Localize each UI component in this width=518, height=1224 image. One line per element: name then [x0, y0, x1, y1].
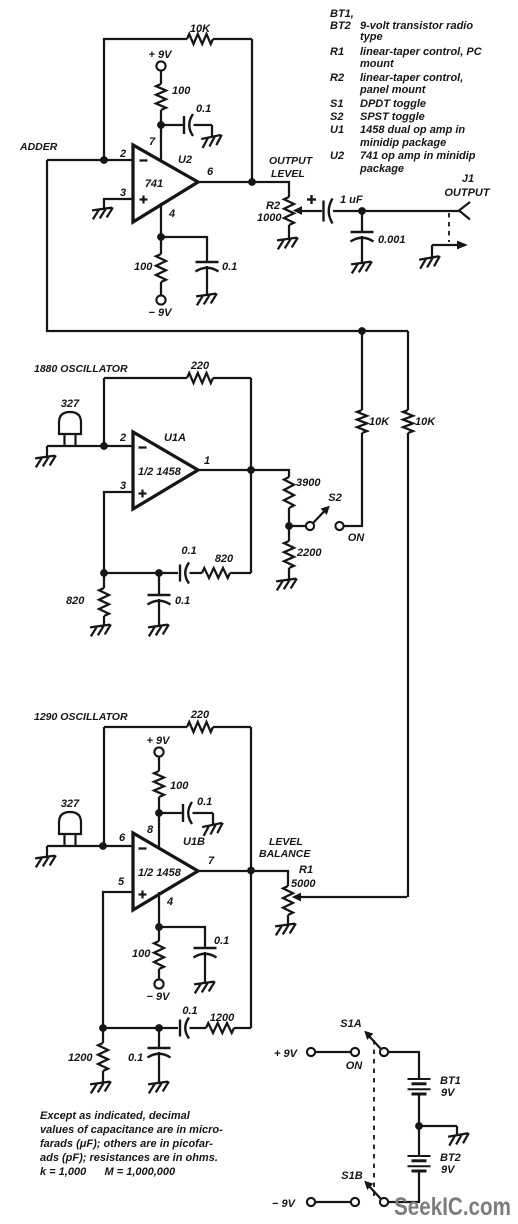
svg-text:R1: R1 — [330, 46, 344, 58]
minus sign (U1B) — [139, 847, 147, 849]
ground (pin8 bypass) — [202, 823, 225, 836]
wire mid to BT2 — [418, 1126, 420, 1156]
svg-text:0.1: 0.1 — [128, 1052, 143, 1064]
wire 1290 top right leg — [250, 727, 252, 870]
node S2 — [286, 523, 293, 530]
terminal +9V b — [351, 1048, 359, 1056]
svg-text:LEVEL: LEVEL — [271, 168, 305, 180]
switch S1A pole — [380, 1048, 388, 1056]
svg-text:J1: J1 — [462, 173, 474, 185]
svg-text:100: 100 — [172, 85, 191, 97]
wire feedback top of U2 — [104, 39, 187, 160]
capacitor 0.001 — [351, 231, 374, 233]
svg-text:BALANCE: BALANCE — [259, 848, 311, 860]
battery BT2 — [408, 1155, 431, 1157]
ground (C 0.001) — [351, 261, 374, 273]
terminal +9V (U2 pin7) — [156, 61, 165, 70]
svg-text:ON: ON — [346, 1060, 364, 1072]
svg-text:5: 5 — [118, 876, 125, 888]
svg-text:1290 OSCILLATOR: 1290 OSCILLATOR — [34, 711, 128, 723]
wire U1A output — [198, 469, 251, 471]
wire 1880 bottom row — [104, 572, 178, 574]
battery BT1 — [408, 1078, 431, 1080]
capacitor 0.1 (1880 shunt) — [148, 594, 171, 596]
plus sign (U2 pin3) — [140, 198, 148, 200]
node fb left — [101, 570, 108, 577]
wire U2 output — [198, 181, 252, 183]
wire U2 pin3 — [104, 199, 133, 208]
svg-text:1/2 1458: 1/2 1458 — [138, 466, 182, 478]
ground (lamp 1290) — [35, 855, 58, 867]
svg-text:SeekIC.com: SeekIC.com — [394, 1193, 511, 1221]
wire 1200 gnd — [102, 1071, 104, 1082]
wire 2200 gnd — [288, 568, 290, 579]
switch S1A lever — [369, 1036, 381, 1049]
svg-text:ads (pF); resistances are in o: ads (pF); resistances are in ohms. — [40, 1152, 218, 1164]
wire output to R2 — [252, 182, 289, 197]
svg-text:0.001: 0.001 — [378, 234, 406, 246]
wire R to node — [158, 797, 160, 813]
potentiometer R1 5000 — [283, 886, 293, 915]
wire pin4 to R — [158, 927, 160, 941]
wire R to -9V — [160, 282, 162, 296]
wire node to cap — [159, 812, 183, 814]
ground (820) — [90, 624, 113, 636]
resistor 1200 (1290 shunt) — [98, 1043, 108, 1071]
svg-text:values of capacitance are in m: values of capacitance are in micro- — [40, 1124, 223, 1136]
svg-text:10K: 10K — [369, 416, 390, 428]
wire balance rail down — [407, 433, 409, 897]
wire 1880 top right leg — [250, 378, 252, 470]
terminal -9V (U2) — [156, 295, 165, 304]
wire cap to gnd — [361, 236, 363, 262]
capacitor 0.1 (U2 pin7 bypass) — [183, 116, 185, 134]
node fb mid 1290 — [156, 1025, 163, 1032]
svg-text:BT1: BT1 — [440, 1075, 461, 1087]
resistor 100 (U1B pin4) — [154, 941, 164, 969]
svg-text:1000: 1000 — [257, 212, 282, 224]
svg-text:6: 6 — [119, 832, 126, 844]
wire mid to gnd — [419, 1125, 457, 1127]
wire cap to J1 — [333, 210, 460, 212]
wire R to right leg — [234, 1027, 251, 1029]
wire out to R1 — [251, 871, 288, 886]
svg-text:100: 100 — [170, 780, 189, 792]
wiper arrow R1 — [298, 896, 407, 898]
op-amp U2 — [133, 145, 198, 222]
ground (0.1 1290) — [148, 1081, 171, 1093]
svg-text:0.1: 0.1 — [182, 1005, 197, 1017]
svg-text:R2: R2 — [330, 72, 344, 84]
svg-text:S2: S2 — [330, 111, 343, 123]
wire to 0.1 shunt 1290 — [158, 1028, 160, 1048]
ground (1200) — [90, 1081, 113, 1093]
minus sign (U1A) — [139, 446, 147, 448]
svg-text:741 op amp in minidip: 741 op amp in minidip — [360, 150, 476, 162]
svg-text:+ 9V: + 9V — [147, 735, 172, 747]
wire pin7 node to cap — [161, 124, 184, 126]
svg-text:U1A: U1A — [164, 432, 186, 444]
svg-text:3: 3 — [120, 480, 126, 492]
resistor 100 (U2 pin7 supply) — [156, 84, 166, 110]
svg-text:820: 820 — [215, 553, 234, 565]
svg-text:0.1: 0.1 — [214, 935, 229, 947]
terminal -9V b — [351, 1198, 359, 1206]
ground (battery mid) — [448, 1133, 471, 1146]
wire cap to R — [190, 1027, 207, 1029]
wire out to 3900 — [251, 470, 289, 477]
wire S2 to 10K — [344, 433, 362, 526]
svg-text:220: 220 — [190, 360, 210, 372]
svg-text:BT2: BT2 — [440, 1152, 461, 1164]
node 0.001 tap — [359, 208, 366, 215]
svg-text:220: 220 — [190, 709, 210, 721]
svg-text:R1: R1 — [299, 864, 313, 876]
wire 1290 top left leg — [103, 727, 105, 846]
lamp 327 (1290) — [59, 812, 81, 834]
svg-text:1458 dual op amp in: 1458 dual op amp in — [360, 124, 465, 136]
svg-text:9V: 9V — [441, 1087, 456, 1099]
svg-text:− 9V: − 9V — [147, 991, 172, 1003]
svg-text:DPDT toggle: DPDT toggle — [360, 98, 426, 110]
ground (2200) — [276, 578, 299, 590]
svg-text:BT1,: BT1, — [330, 8, 354, 20]
node fb mid — [156, 570, 163, 577]
svg-text:minidip package: minidip package — [360, 137, 446, 149]
wiper arrow R2 — [299, 210, 322, 212]
node pin2/feedback — [101, 157, 108, 164]
svg-text:9V: 9V — [441, 1164, 456, 1176]
lamp 327 (1880) — [59, 412, 81, 434]
wire 1880 feedback top — [104, 377, 187, 379]
op-amp U1A — [133, 432, 198, 509]
wire 1880 top left leg — [103, 378, 105, 446]
capacitor 0.1 (U1B pin4 bypass) — [194, 947, 217, 949]
switch S2 contact a — [306, 522, 314, 530]
wire pin4 to cap 0.1 — [161, 237, 207, 262]
terminal -9V (U1B) — [154, 979, 163, 988]
wire U1B output — [198, 870, 251, 872]
svg-text:1200: 1200 — [68, 1052, 93, 1064]
wire R1 to gnd — [287, 915, 289, 924]
svg-text:U1: U1 — [330, 124, 344, 136]
wire cap to R — [190, 572, 203, 574]
svg-text:327: 327 — [61, 798, 80, 810]
wire 0.1 gnd — [158, 599, 160, 625]
svg-text:Except as indicated, decimal: Except as indicated, decimal — [40, 1110, 191, 1122]
svg-text:0.1: 0.1 — [181, 545, 196, 557]
wire +9V to R — [160, 71, 162, 84]
node 10K/rail — [359, 328, 366, 335]
wire lamp gnd stub — [46, 846, 48, 856]
wire cap to gnd — [193, 812, 214, 814]
svg-text:2200: 2200 — [296, 547, 322, 559]
dashed link J1 — [448, 213, 450, 242]
svg-text:OUTPUT: OUTPUT — [444, 187, 491, 199]
wire 1290 feedback top — [104, 726, 187, 728]
wire U1B pin5 — [103, 892, 133, 1028]
wire tap to cap — [361, 211, 363, 232]
ground (R1) — [275, 923, 298, 935]
wire 1880 bottom right leg — [250, 470, 252, 573]
svg-text:OUTPUT: OUTPUT — [269, 155, 314, 167]
plug arrow (J1 mate) — [432, 244, 459, 246]
svg-text:10K: 10K — [415, 416, 436, 428]
wire pin4 to R — [160, 237, 162, 254]
svg-text:+ 9V: + 9V — [149, 49, 174, 61]
wire to 0.1 shunt — [158, 573, 160, 595]
op-amp U1B — [133, 833, 198, 910]
wire R2 to gnd — [288, 225, 290, 238]
svg-text:1 uF: 1 uF — [340, 194, 363, 206]
wire node to S2 — [289, 525, 306, 527]
svg-text:U2: U2 — [178, 154, 192, 166]
wire pin7 stub — [160, 125, 162, 162]
wire BT1 to mid — [418, 1094, 420, 1126]
svg-text:2: 2 — [119, 148, 126, 160]
svg-text:SPST toggle: SPST toggle — [360, 111, 425, 123]
svg-text:ON: ON — [348, 532, 366, 544]
svg-text:R2: R2 — [266, 200, 280, 212]
node 1880 out — [248, 467, 255, 474]
wire U1B pin4 stub — [158, 892, 160, 927]
terminal +9V (U1B pin8) — [154, 747, 163, 756]
svg-text:1880 OSCILLATOR: 1880 OSCILLATOR — [34, 363, 128, 375]
svg-text:3900: 3900 — [296, 477, 321, 489]
wire 820 gnd — [103, 616, 105, 625]
wire R to pin7 node — [160, 110, 162, 125]
capacitor 0.1 (1880 series) — [179, 565, 181, 582]
wire pole to BT1 — [389, 1052, 420, 1079]
wire cap to gnd — [204, 952, 206, 982]
ground (U2 pin3) — [92, 207, 115, 219]
resistor 10K (S2) — [357, 410, 367, 433]
node pin4 1290 — [156, 924, 163, 931]
wire BT2 to S1B — [389, 1171, 420, 1202]
svg-text:linear-taper control, PC: linear-taper control, PC — [360, 46, 483, 58]
node fb left 1290 — [100, 1025, 107, 1032]
node 1290 out — [248, 867, 255, 874]
svg-text:4: 4 — [166, 896, 173, 908]
capacitor 0.1 (U2 pin4 bypass) — [196, 261, 219, 263]
wire feedback right leg — [251, 39, 253, 182]
svg-text:panel mount: panel mount — [359, 84, 427, 96]
svg-text:k = 1,000 M = 1,000,0: k = 1,000 M = 1,000,000 — [40, 1166, 176, 1178]
wire +9V to R — [158, 757, 160, 771]
resistor 100 (U1B pin8) — [154, 771, 164, 797]
wire R to -9V — [158, 969, 160, 980]
wire lamp row 1290 — [47, 845, 133, 847]
plus sign (C 1uF) — [307, 198, 316, 200]
resistor 100 (U2 pin4 supply) — [156, 254, 166, 282]
switch S1B lever — [369, 1186, 381, 1199]
wire 1290 bottom row — [103, 1027, 178, 1029]
terminal +9V a — [307, 1048, 315, 1056]
svg-text:4: 4 — [168, 208, 175, 220]
svg-text:820: 820 — [66, 595, 85, 607]
svg-text:linear-taper control,: linear-taper control, — [360, 72, 463, 84]
svg-text:5000: 5000 — [291, 878, 316, 890]
wire 10K up — [361, 331, 363, 410]
wire U1A pin3 — [104, 492, 133, 573]
wire pin8 stub — [158, 813, 160, 849]
wire lamp row — [47, 445, 133, 447]
wire cap to gnd — [206, 266, 208, 294]
svg-text:S1B: S1B — [341, 1170, 362, 1182]
wire to 1200 — [102, 1028, 104, 1043]
svg-text:0.1: 0.1 — [196, 103, 211, 115]
svg-text:0.1: 0.1 — [222, 261, 237, 273]
svg-text:− 9V: − 9V — [149, 307, 174, 319]
svg-text:3: 3 — [120, 187, 126, 199]
node battery mid — [416, 1123, 423, 1130]
svg-text:U2: U2 — [330, 150, 344, 162]
svg-text:1/2 1458: 1/2 1458 — [138, 867, 182, 879]
svg-text:type: type — [360, 31, 383, 43]
svg-text:2: 2 — [119, 432, 126, 444]
svg-text:6: 6 — [207, 166, 214, 178]
svg-text:8: 8 — [147, 824, 154, 836]
terminal -9V a — [307, 1198, 315, 1206]
ground (plug) — [419, 256, 442, 269]
node lamp/pin6 — [100, 843, 107, 850]
wire node to 2200 — [288, 526, 290, 541]
resistor 220 (1290) — [187, 722, 213, 732]
svg-text:farads (μF); others are in pic: farads (μF); others are in picofar- — [40, 1138, 213, 1150]
svg-text:+ 9V: + 9V — [274, 1048, 299, 1060]
svg-text:S1: S1 — [330, 98, 343, 110]
wire adder input rail — [47, 160, 408, 331]
svg-text:package: package — [359, 163, 404, 175]
resistor 820 (1880 shunt) — [99, 588, 109, 616]
wire R to right leg — [230, 572, 251, 574]
resistor 220 (1880) — [187, 373, 213, 383]
svg-text:10K: 10K — [190, 23, 211, 35]
ground (R2) — [277, 237, 300, 249]
connector J1 jack — [459, 202, 470, 220]
svg-text:7: 7 — [149, 136, 156, 148]
svg-text:mount: mount — [360, 58, 395, 70]
svg-text:0.1: 0.1 — [175, 595, 190, 607]
switch S2 contact b — [335, 522, 343, 530]
wire pin4 to cap 0.1 — [159, 927, 205, 948]
node pin4 — [158, 234, 165, 241]
resistor 3900 — [284, 477, 294, 508]
ground (U2 pin4 bypass) — [196, 293, 219, 305]
svg-text:S2: S2 — [328, 492, 341, 504]
wire to 820 — [103, 573, 105, 588]
wire 1290 bottom right leg — [250, 871, 252, 1028]
svg-text:7: 7 — [208, 855, 215, 867]
resistor 1200 (1290 series) — [206, 1023, 234, 1033]
svg-text:100: 100 — [132, 948, 151, 960]
node pin8 bypass — [156, 810, 163, 817]
svg-text:− 9V: − 9V — [272, 1198, 297, 1210]
switch S1B pole — [380, 1198, 388, 1206]
wire cap to ground — [194, 124, 213, 126]
svg-text:0.1: 0.1 — [197, 796, 212, 808]
wire U2 pin2 input — [47, 159, 133, 161]
svg-text:1: 1 — [204, 455, 210, 467]
capacitor 0.1 (U1B pin8 bypass) — [182, 804, 184, 822]
ground (0.1 1880) — [148, 624, 171, 636]
svg-text:327: 327 — [61, 398, 80, 410]
ground (U2 pin7 bypass) — [201, 135, 224, 148]
wire U2 pin4 stub — [160, 203, 162, 237]
capacitor 0.1 (1290 series) — [179, 1020, 181, 1037]
plus sign (U1A) — [139, 492, 147, 494]
switch S2 lever — [314, 511, 326, 523]
wire +9V link — [316, 1051, 351, 1053]
potentiometer R2 1000 — [284, 197, 294, 225]
wire -9V link — [316, 1201, 351, 1203]
ground (pin4 bypass 1290) — [194, 981, 217, 993]
dashed link S1 — [373, 1040, 375, 1196]
svg-text:741: 741 — [145, 178, 163, 190]
svg-text:S1A: S1A — [340, 1018, 361, 1030]
capacitor 0.1 (1290 shunt) — [148, 1047, 171, 1049]
node lamp/pin2 — [101, 443, 108, 450]
node output/feedback — [249, 179, 256, 186]
svg-text:ADDER: ADDER — [19, 141, 58, 153]
wire lamp gnd stub — [46, 446, 48, 456]
svg-text:U1B: U1B — [183, 836, 205, 848]
capacitor 1uF — [322, 201, 324, 222]
wire 3900 to node — [288, 508, 290, 526]
ground (lamp 1880) — [35, 455, 58, 467]
node pin7 bypass — [158, 122, 165, 129]
resistor 2200 — [284, 541, 294, 568]
svg-text:100: 100 — [134, 261, 153, 273]
wire 0.1 gnd — [158, 1052, 160, 1082]
resistor 10K (balance rail) — [403, 410, 413, 433]
svg-text:LEVEL: LEVEL — [269, 836, 303, 848]
wire balance rail up — [407, 331, 409, 410]
svg-text:BT2: BT2 — [330, 20, 351, 32]
plus sign (U1B) — [139, 893, 147, 895]
resistor 820 (1880 series) — [202, 568, 230, 578]
minus sign (U2 pin2) — [140, 159, 148, 161]
svg-text:1200: 1200 — [210, 1012, 235, 1024]
resistor 10K (U2 feedback) — [187, 34, 213, 44]
